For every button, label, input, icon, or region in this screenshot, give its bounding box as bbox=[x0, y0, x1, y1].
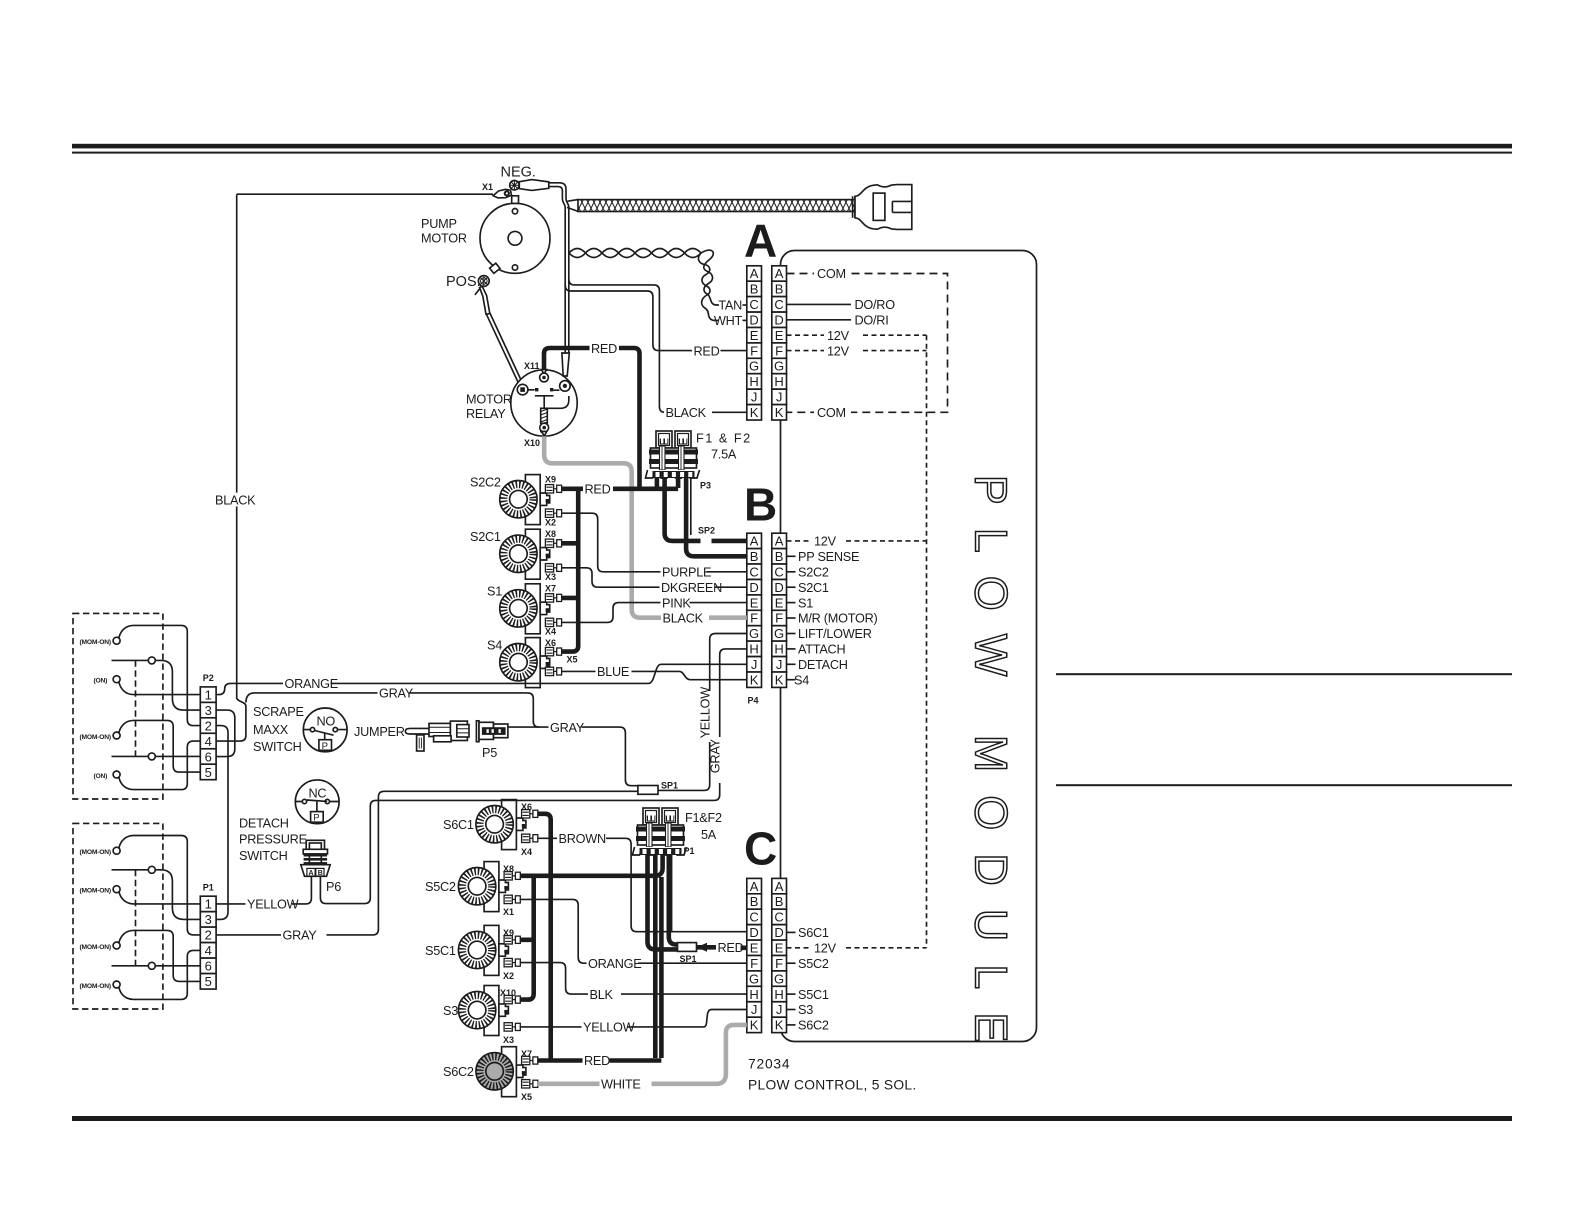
right separator line 1 bbox=[1056, 673, 1512, 675]
svg-text:GRAY: GRAY bbox=[550, 721, 585, 735]
braided cable bbox=[578, 200, 866, 212]
svg-text:A: A bbox=[750, 266, 759, 281]
solenoid coil S6C1 bbox=[502, 800, 517, 850]
svg-text:S5C2: S5C2 bbox=[798, 957, 829, 971]
svg-text:TAN: TAN bbox=[718, 299, 742, 313]
dashed net COM (A-A to A-K) bbox=[787, 274, 948, 413]
svg-text:D: D bbox=[774, 925, 783, 940]
svg-text:J: J bbox=[751, 657, 758, 672]
terminals S5C2 bbox=[504, 872, 520, 880]
switch contact MOM-ON 2 bbox=[113, 732, 120, 739]
thin pin line bbox=[690, 477, 692, 535]
svg-text:(ON): (ON) bbox=[94, 678, 108, 685]
svg-text:X3: X3 bbox=[545, 572, 556, 582]
NEG wire taper into relay right terminal bbox=[562, 353, 569, 376]
svg-text:(ON): (ON) bbox=[94, 773, 108, 780]
solenoid coil S3 bbox=[484, 986, 499, 1036]
svg-text:X10: X10 bbox=[524, 438, 540, 448]
svg-text:72034: 72034 bbox=[748, 1057, 790, 1072]
svg-text:S2C2: S2C2 bbox=[798, 566, 829, 580]
rotated label YELLOW bbox=[703, 691, 717, 742]
svg-text:D: D bbox=[774, 313, 783, 328]
switch contact mid 3 bbox=[148, 866, 155, 873]
svg-text:J: J bbox=[776, 390, 783, 405]
wire YELLOW P1-1 to P6-A bbox=[216, 877, 311, 904]
rotated label GRAY bbox=[713, 737, 727, 783]
svg-text:X8: X8 bbox=[545, 529, 556, 539]
switch wire C1 to P2-2 bbox=[119, 625, 200, 725]
label B M/R (MOTOR) bbox=[787, 617, 796, 619]
svg-text:X9: X9 bbox=[545, 475, 556, 485]
thick red horizontal S6C2-X7 to fuse risers bbox=[537, 1058, 661, 1063]
svg-text:ORANGE: ORANGE bbox=[285, 677, 339, 691]
svg-text:NEG.: NEG. bbox=[501, 165, 536, 181]
svg-text:G: G bbox=[749, 626, 759, 641]
svg-text:K: K bbox=[775, 405, 784, 420]
svg-text:G: G bbox=[774, 626, 784, 641]
svg-text:B: B bbox=[775, 282, 784, 297]
svg-text:DO/RI: DO/RI bbox=[855, 314, 889, 328]
svg-text:E: E bbox=[775, 595, 784, 610]
svg-text:5A: 5A bbox=[701, 828, 717, 842]
svg-text:X9: X9 bbox=[503, 928, 514, 938]
NC switch circle detach pressure bbox=[295, 780, 339, 824]
NO switch circle scrape maxx bbox=[303, 708, 347, 752]
svg-text:P6: P6 bbox=[326, 880, 341, 894]
switch contact MOM-ON 1 bbox=[113, 637, 120, 644]
fuse P1 pin3 wire to S5C2 X8 bbox=[520, 854, 663, 876]
svg-text:(MOM-ON): (MOM-ON) bbox=[80, 639, 111, 646]
svg-text:S6C1: S6C1 bbox=[798, 926, 829, 940]
wire SP1 up to B-G bbox=[658, 634, 747, 791]
wire P1-2 GRAY up to SP1 bbox=[216, 791, 638, 935]
svg-text:C: C bbox=[749, 565, 758, 580]
label B LIFT/LOWER bbox=[787, 633, 796, 635]
svg-text:COM: COM bbox=[817, 267, 846, 281]
svg-text:GRAY: GRAY bbox=[379, 687, 414, 701]
svg-text:F: F bbox=[750, 956, 758, 971]
svg-text:M/R (MOTOR): M/R (MOTOR) bbox=[798, 612, 877, 626]
switch contact ON 1 bbox=[113, 676, 120, 683]
svg-text:BLACK: BLACK bbox=[666, 406, 707, 420]
svg-text:G: G bbox=[774, 971, 784, 986]
wire DO/RI bbox=[787, 319, 852, 321]
svg-text:YELLOW: YELLOW bbox=[583, 1021, 635, 1035]
X1 terminal bbox=[493, 189, 512, 198]
switch wire C6b to P1-4 bbox=[119, 950, 200, 999]
switch contact MOM-ON 6 bbox=[113, 981, 120, 988]
svg-text:5: 5 bbox=[205, 974, 212, 989]
svg-text:J: J bbox=[776, 657, 783, 672]
svg-text:S5C2: S5C2 bbox=[425, 880, 456, 894]
svg-text:A: A bbox=[775, 534, 784, 549]
relay contacts bbox=[528, 389, 559, 391]
svg-text:4: 4 bbox=[205, 943, 212, 958]
wire ORANGE P2-1 to B-J bbox=[216, 664, 747, 694]
wire DO/RO bbox=[787, 303, 852, 305]
svg-text:BLACK: BLACK bbox=[215, 493, 256, 507]
svg-text:K: K bbox=[750, 405, 759, 420]
label BLACK on gray wire bbox=[661, 611, 709, 625]
label TAN + stub bbox=[743, 304, 747, 306]
svg-text:ATTACH: ATTACH bbox=[798, 643, 845, 657]
relay left terminal bbox=[517, 384, 528, 395]
switch wire C6 to P2-4 bbox=[119, 741, 200, 790]
label WHT + stub bbox=[743, 319, 747, 321]
dashed enclosure box bottom bbox=[73, 823, 163, 1009]
X1 lead line from left bbox=[237, 193, 493, 195]
svg-text:E: E bbox=[775, 328, 784, 343]
svg-text:X7: X7 bbox=[545, 584, 556, 594]
solenoid coil S4 bbox=[525, 638, 540, 688]
pump motor body circle bbox=[480, 203, 550, 273]
svg-text:A: A bbox=[775, 879, 784, 894]
svg-text:1: 1 bbox=[205, 687, 212, 702]
terminals S5C1 bbox=[504, 936, 520, 944]
wire BROWN S6C1-X4 to C-D bbox=[537, 838, 747, 931]
svg-text:X6: X6 bbox=[521, 802, 532, 812]
wire BLK S5C1-X2 to C-H bbox=[520, 963, 747, 995]
switch wire C1b to P1-2 bbox=[119, 836, 200, 935]
svg-text:3: 3 bbox=[205, 703, 212, 718]
svg-text:F: F bbox=[775, 611, 783, 626]
svg-text:5: 5 bbox=[205, 765, 212, 780]
P5 hang tag bbox=[417, 735, 424, 751]
svg-text:S4: S4 bbox=[487, 639, 502, 653]
svg-text:X3: X3 bbox=[503, 1035, 514, 1045]
P6 connector body bbox=[306, 840, 324, 849]
relay right terminal bbox=[560, 381, 571, 392]
twisted pair horizontal bbox=[569, 249, 701, 258]
relay coil squiggle link bbox=[541, 423, 548, 434]
svg-text:(MOM-ON): (MOM-ON) bbox=[80, 983, 111, 990]
svg-text:E: E bbox=[775, 941, 784, 956]
svg-text:GRAY: GRAY bbox=[283, 929, 318, 943]
svg-text:D: D bbox=[749, 925, 758, 940]
POS ring terminal bbox=[490, 263, 500, 273]
switch wire C4b to P1-5 bbox=[119, 930, 200, 981]
twisted pair corner and drop bbox=[701, 250, 713, 294]
svg-text:B: B bbox=[775, 549, 784, 564]
svg-text:DKGREEN: DKGREEN bbox=[661, 581, 722, 595]
relay armature bar bbox=[535, 396, 554, 409]
relay terminal X11 bbox=[542, 370, 547, 375]
thick red bus S6C1-X6 down to S6C2 row bbox=[537, 814, 550, 1061]
switch wire C5 to P2-6 bbox=[112, 755, 201, 757]
svg-text:GRAY: GRAY bbox=[709, 738, 723, 773]
relay internal wire to coil bbox=[547, 396, 569, 408]
terminals S3 bbox=[504, 995, 520, 1003]
braid tap stubs bbox=[567, 200, 578, 212]
gray wire X10 to B-F bbox=[544, 436, 747, 618]
svg-text:B: B bbox=[750, 894, 759, 909]
svg-text:X5: X5 bbox=[567, 655, 578, 665]
svg-text:PURPLE: PURPLE bbox=[662, 566, 711, 580]
POS lead wire to relay bbox=[480, 286, 490, 314]
svg-text:A: A bbox=[750, 534, 759, 549]
svg-text:S5C1: S5C1 bbox=[425, 944, 456, 958]
svg-text:RED: RED bbox=[694, 344, 720, 358]
svg-text:H: H bbox=[749, 642, 758, 657]
wire DKGREEN S2C1-X3 to B-D bbox=[562, 568, 747, 587]
dashed link line top bbox=[135, 660, 137, 756]
svg-text:X5: X5 bbox=[521, 1092, 532, 1102]
switch wire C2 to P2-3 bbox=[112, 660, 201, 710]
label RED on relay wire bbox=[590, 341, 620, 355]
svg-text:X4: X4 bbox=[545, 627, 556, 637]
svg-text:1: 1 bbox=[205, 897, 212, 912]
svg-text:PP SENSE: PP SENSE bbox=[798, 550, 859, 564]
svg-text:J: J bbox=[776, 1002, 783, 1017]
svg-text:PLOW CONTROL, 5 SOL.: PLOW CONTROL, 5 SOL. bbox=[748, 1078, 917, 1093]
svg-text:E: E bbox=[750, 328, 759, 343]
svg-text:P2: P2 bbox=[203, 673, 214, 683]
svg-text:2: 2 bbox=[205, 718, 212, 733]
svg-text:S6C2: S6C2 bbox=[798, 1019, 829, 1033]
terminals S4 bbox=[545, 647, 561, 655]
fuse P1 pin1 wire to SP1 splice bbox=[648, 854, 679, 949]
fuse block F1 F2 7.5A (P3) bbox=[656, 431, 672, 448]
svg-text:POS.: POS. bbox=[446, 274, 481, 290]
NEG ring terminal bbox=[510, 181, 519, 190]
label C S5C2 bbox=[787, 962, 796, 964]
switch wire C4 to P2-5 bbox=[119, 720, 200, 772]
wire PINK S1-X4 to B-E bbox=[562, 603, 747, 623]
pump motor bolt bottom bbox=[512, 265, 517, 270]
wire fuse to B-A with SP2 bbox=[665, 477, 746, 541]
braid end cap bbox=[853, 196, 855, 217]
label B DETACH bbox=[787, 663, 796, 665]
second red bus riser bbox=[659, 877, 664, 1058]
svg-text:B: B bbox=[775, 894, 784, 909]
svg-text:3: 3 bbox=[205, 912, 212, 927]
label B S2C1 bbox=[787, 586, 796, 588]
svg-text:6: 6 bbox=[205, 749, 212, 764]
wire PURPLE S2C2-X2 to B-C bbox=[562, 513, 747, 572]
svg-text:RED: RED bbox=[585, 483, 611, 497]
svg-text:C: C bbox=[774, 565, 783, 580]
svg-text:12V: 12V bbox=[827, 344, 850, 358]
svg-text:RED: RED bbox=[718, 941, 744, 955]
svg-text:A: A bbox=[775, 266, 784, 281]
svg-text:12V: 12V bbox=[814, 535, 837, 549]
svg-text:X7: X7 bbox=[521, 1049, 532, 1059]
svg-text:B: B bbox=[750, 549, 759, 564]
svg-text:X2: X2 bbox=[545, 518, 556, 528]
gray wire WHITE S6C2-X5 to C-K bbox=[537, 1025, 747, 1084]
label B PP SENSE bbox=[787, 555, 796, 557]
POS leader dash bbox=[475, 288, 481, 295]
svg-text:F1 & F2: F1 & F2 bbox=[696, 432, 752, 446]
svg-text:YELLOW: YELLOW bbox=[247, 898, 299, 912]
svg-text:MAXX: MAXX bbox=[253, 723, 289, 737]
wire GRAY P2 to P5 junction bbox=[246, 693, 539, 727]
svg-text:(MOM-ON): (MOM-ON) bbox=[80, 944, 111, 951]
relay coil bbox=[541, 408, 548, 423]
svg-text:MOTOR: MOTOR bbox=[421, 232, 467, 246]
svg-text:SWITCH: SWITCH bbox=[239, 849, 288, 863]
label 12V row E bbox=[824, 328, 860, 342]
connector B left column P-side bbox=[747, 533, 762, 548]
branch wire to BLACK A-K bbox=[569, 279, 747, 412]
label RED on X9 wire bbox=[583, 482, 613, 496]
fuse P1 pin2 wire down to red bus bbox=[653, 854, 658, 1058]
NEG lead taper bbox=[519, 180, 549, 191]
svg-text:H: H bbox=[774, 374, 783, 389]
svg-text:SP1: SP1 bbox=[661, 781, 678, 791]
svg-text:F: F bbox=[775, 343, 783, 358]
wire BLUE S4-X5 to B-K bbox=[562, 671, 747, 679]
P5 bottom plate bbox=[434, 736, 452, 742]
dashed link line bottom bbox=[135, 870, 137, 966]
svg-text:S2C1: S2C1 bbox=[470, 530, 501, 544]
label C S3 bbox=[787, 1009, 796, 1011]
svg-text:YELLOW: YELLOW bbox=[699, 687, 713, 739]
svg-text:F: F bbox=[750, 611, 758, 626]
svg-text:6: 6 bbox=[205, 959, 212, 974]
svg-text:PINK: PINK bbox=[662, 596, 691, 610]
svg-text:B: B bbox=[318, 870, 323, 877]
label B S1 bbox=[787, 602, 796, 604]
splice SP2 bbox=[701, 536, 712, 545]
svg-text:A: A bbox=[744, 215, 777, 267]
label C S6C1 bbox=[787, 931, 796, 933]
svg-text:BROWN: BROWN bbox=[559, 832, 606, 846]
svg-text:S1: S1 bbox=[798, 596, 813, 610]
label C S5C1 bbox=[787, 993, 796, 995]
switch wire C3b to P1-1 bbox=[119, 891, 200, 904]
twisted pair tails to TAN WHT bbox=[708, 295, 719, 306]
svg-text:C: C bbox=[749, 297, 758, 312]
switch contact MOM-ON 4 bbox=[113, 886, 120, 893]
svg-text:DETACH: DETACH bbox=[798, 658, 848, 672]
svg-text:D: D bbox=[749, 580, 758, 595]
svg-text:D: D bbox=[749, 313, 758, 328]
svg-text:S3: S3 bbox=[798, 1003, 813, 1017]
svg-text:12V: 12V bbox=[814, 942, 837, 956]
svg-text:H: H bbox=[749, 987, 758, 1002]
thick RED wire relay X11 to bus drop bbox=[544, 348, 640, 489]
svg-text:X8: X8 bbox=[503, 864, 514, 874]
svg-text:BLK: BLK bbox=[590, 988, 614, 1002]
pump motor NEG stud stub bbox=[512, 196, 519, 204]
svg-text:(MOM-ON): (MOM-ON) bbox=[80, 888, 111, 895]
svg-text:RED: RED bbox=[584, 1054, 610, 1068]
svg-text:S2C1: S2C1 bbox=[798, 581, 829, 595]
switch contact ON 2 bbox=[113, 771, 120, 778]
svg-text:RELAY: RELAY bbox=[466, 407, 506, 421]
connector C right column module-side bbox=[772, 878, 787, 893]
svg-text:X1: X1 bbox=[482, 182, 493, 192]
svg-text:J: J bbox=[751, 390, 758, 405]
label RED at C-E bbox=[717, 940, 741, 954]
label B ATTACH bbox=[787, 648, 796, 650]
svg-text:PUMP: PUMP bbox=[421, 217, 457, 231]
svg-text:X6: X6 bbox=[545, 638, 556, 648]
svg-text:S1: S1 bbox=[487, 585, 502, 599]
svg-text:DO/RO: DO/RO bbox=[855, 298, 896, 312]
bottom border thick rule bbox=[72, 1116, 1512, 1121]
dashed enclosure box top bbox=[73, 613, 163, 799]
label RED bottom bbox=[583, 1054, 610, 1068]
thick bus S5C1-X9 S3-X10 bbox=[520, 876, 534, 1000]
solenoid coil S6C2 bbox=[502, 1047, 517, 1097]
svg-text:S2C2: S2C2 bbox=[470, 476, 501, 490]
svg-text:PLOW MODULE: PLOW MODULE bbox=[966, 475, 1017, 1066]
svg-text:P4: P4 bbox=[748, 696, 759, 706]
svg-text:(MOM-ON): (MOM-ON) bbox=[80, 734, 111, 741]
svg-text:X11: X11 bbox=[524, 361, 540, 371]
svg-text:P: P bbox=[322, 741, 328, 752]
svg-text:B: B bbox=[750, 282, 759, 297]
svg-text:WHITE: WHITE bbox=[601, 1078, 641, 1092]
terminals S2C1 bbox=[545, 539, 561, 547]
svg-text:BLUE: BLUE bbox=[597, 665, 629, 679]
solenoid coil S5C2 bbox=[484, 862, 499, 912]
label BLACK at A-K bbox=[664, 406, 712, 420]
top border thick rule bbox=[72, 144, 1512, 149]
plow module box bbox=[781, 251, 1037, 1042]
svg-text:K: K bbox=[775, 1018, 784, 1033]
connector B right column module-side bbox=[772, 533, 787, 548]
switch wire C2b to P1-3 bbox=[112, 870, 201, 920]
label B S4 bbox=[787, 679, 796, 681]
svg-text:H: H bbox=[749, 374, 758, 389]
svg-text:G: G bbox=[774, 359, 784, 374]
terminals S6C1 bbox=[522, 810, 538, 818]
NEG double-wire down to relay bbox=[549, 183, 569, 353]
wire YELLOW S3-X3 to C-J bbox=[520, 1010, 747, 1027]
right separator line 2 bbox=[1056, 784, 1512, 786]
svg-text:X2: X2 bbox=[503, 971, 514, 981]
wire ORANGE S5C2-X1 to C-F bbox=[520, 899, 747, 963]
solenoid coil S2C2 bbox=[525, 475, 540, 525]
svg-text:SWITCH: SWITCH bbox=[253, 740, 302, 754]
svg-text:C: C bbox=[774, 910, 783, 925]
svg-text:S6C1: S6C1 bbox=[443, 818, 474, 832]
label COM row A bbox=[814, 267, 851, 281]
svg-text:SP2: SP2 bbox=[698, 526, 715, 536]
svg-text:X1: X1 bbox=[503, 907, 514, 917]
svg-text:P: P bbox=[313, 813, 319, 824]
svg-text:(MOM-ON): (MOM-ON) bbox=[80, 849, 111, 856]
svg-text:BLACK: BLACK bbox=[663, 612, 704, 626]
svg-text:P1: P1 bbox=[203, 883, 214, 893]
svg-text:COM: COM bbox=[817, 406, 846, 420]
splice SP1 mid bbox=[638, 786, 658, 795]
fuse block F1&F2 5A (P1) bbox=[643, 808, 659, 825]
switch wire C5b to P1-6 bbox=[112, 965, 201, 967]
svg-text:G: G bbox=[749, 359, 759, 374]
svg-text:K: K bbox=[775, 672, 784, 687]
svg-text:F1&F2: F1&F2 bbox=[685, 811, 722, 825]
label 12V row F bbox=[824, 344, 860, 358]
svg-text:E: E bbox=[750, 941, 759, 956]
svg-text:G: G bbox=[749, 971, 759, 986]
svg-text:S6C2: S6C2 bbox=[443, 1065, 474, 1079]
svg-text:4: 4 bbox=[205, 734, 212, 749]
svg-text:LIFT/LOWER: LIFT/LOWER bbox=[798, 627, 872, 641]
wire P5 to SP1 bbox=[508, 727, 638, 786]
svg-text:A: A bbox=[309, 870, 314, 877]
svg-text:12V: 12V bbox=[827, 329, 850, 343]
thick RED horizontal X9 row to fuse pins bbox=[562, 486, 679, 491]
svg-text:RED: RED bbox=[591, 342, 617, 356]
switch wire C3 to P2-1 bbox=[119, 682, 200, 695]
terminals S6C2 bbox=[522, 1056, 538, 1064]
fuse P1 pin4 wire to SP1 splice top bbox=[669, 854, 678, 945]
svg-text:X10: X10 bbox=[500, 988, 516, 998]
